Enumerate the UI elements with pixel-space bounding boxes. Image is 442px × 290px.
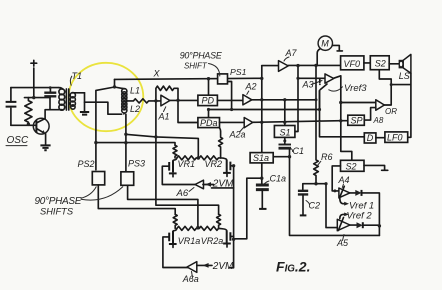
svg-text:PS1: PS1: [230, 67, 247, 77]
svg-text:A1: A1: [158, 112, 170, 122]
svg-text:PS2: PS2: [78, 159, 95, 169]
svg-text:S2: S2: [346, 161, 357, 171]
svg-text:PS3: PS3: [128, 159, 145, 169]
svg-text:A6: A6: [176, 188, 189, 199]
svg-text:OSC: OSC: [7, 135, 29, 146]
svg-text:VR1a: VR1a: [178, 236, 201, 246]
svg-text:S1: S1: [280, 127, 291, 137]
svg-text:Vref 2: Vref 2: [347, 210, 373, 221]
svg-text:A7: A7: [285, 48, 298, 58]
svg-text:SP: SP: [351, 115, 363, 125]
svg-text:Vref3: Vref3: [344, 83, 367, 94]
svg-text:D: D: [367, 133, 374, 143]
svg-text:A2a: A2a: [229, 130, 246, 140]
svg-text:SHIFT: SHIFT: [184, 61, 208, 70]
svg-text:C1a: C1a: [270, 174, 287, 184]
svg-text:2VM: 2VM: [212, 261, 234, 272]
svg-text:S2: S2: [375, 59, 386, 69]
svg-text:VR2a: VR2a: [201, 236, 224, 246]
svg-text:X: X: [153, 69, 161, 79]
svg-text:L2: L2: [130, 104, 140, 114]
svg-text:SHIFTS: SHIFTS: [40, 207, 74, 217]
svg-text:C1: C1: [293, 146, 305, 156]
svg-text:A6a: A6a: [182, 274, 199, 284]
svg-text:PD: PD: [202, 96, 215, 106]
svg-text:A2: A2: [245, 82, 257, 92]
svg-text:L1: L1: [130, 86, 140, 96]
svg-text:PDa: PDa: [200, 118, 218, 128]
svg-text:OR: OR: [385, 107, 397, 116]
svg-text:VF0: VF0: [344, 59, 361, 69]
svg-text:VR2: VR2: [205, 159, 223, 169]
svg-text:A8: A8: [373, 116, 384, 125]
svg-text:C2: C2: [309, 201, 321, 211]
svg-text:LF0: LF0: [387, 133, 403, 143]
svg-text:S1a: S1a: [253, 153, 269, 163]
svg-text:R6: R6: [321, 152, 333, 162]
svg-text:LS: LS: [399, 71, 410, 81]
svg-text:VR1: VR1: [178, 159, 196, 169]
svg-text:A4: A4: [338, 175, 350, 185]
svg-text:90°PHASE: 90°PHASE: [180, 50, 222, 60]
svg-text:T1: T1: [72, 71, 83, 81]
svg-text:M: M: [321, 39, 329, 49]
